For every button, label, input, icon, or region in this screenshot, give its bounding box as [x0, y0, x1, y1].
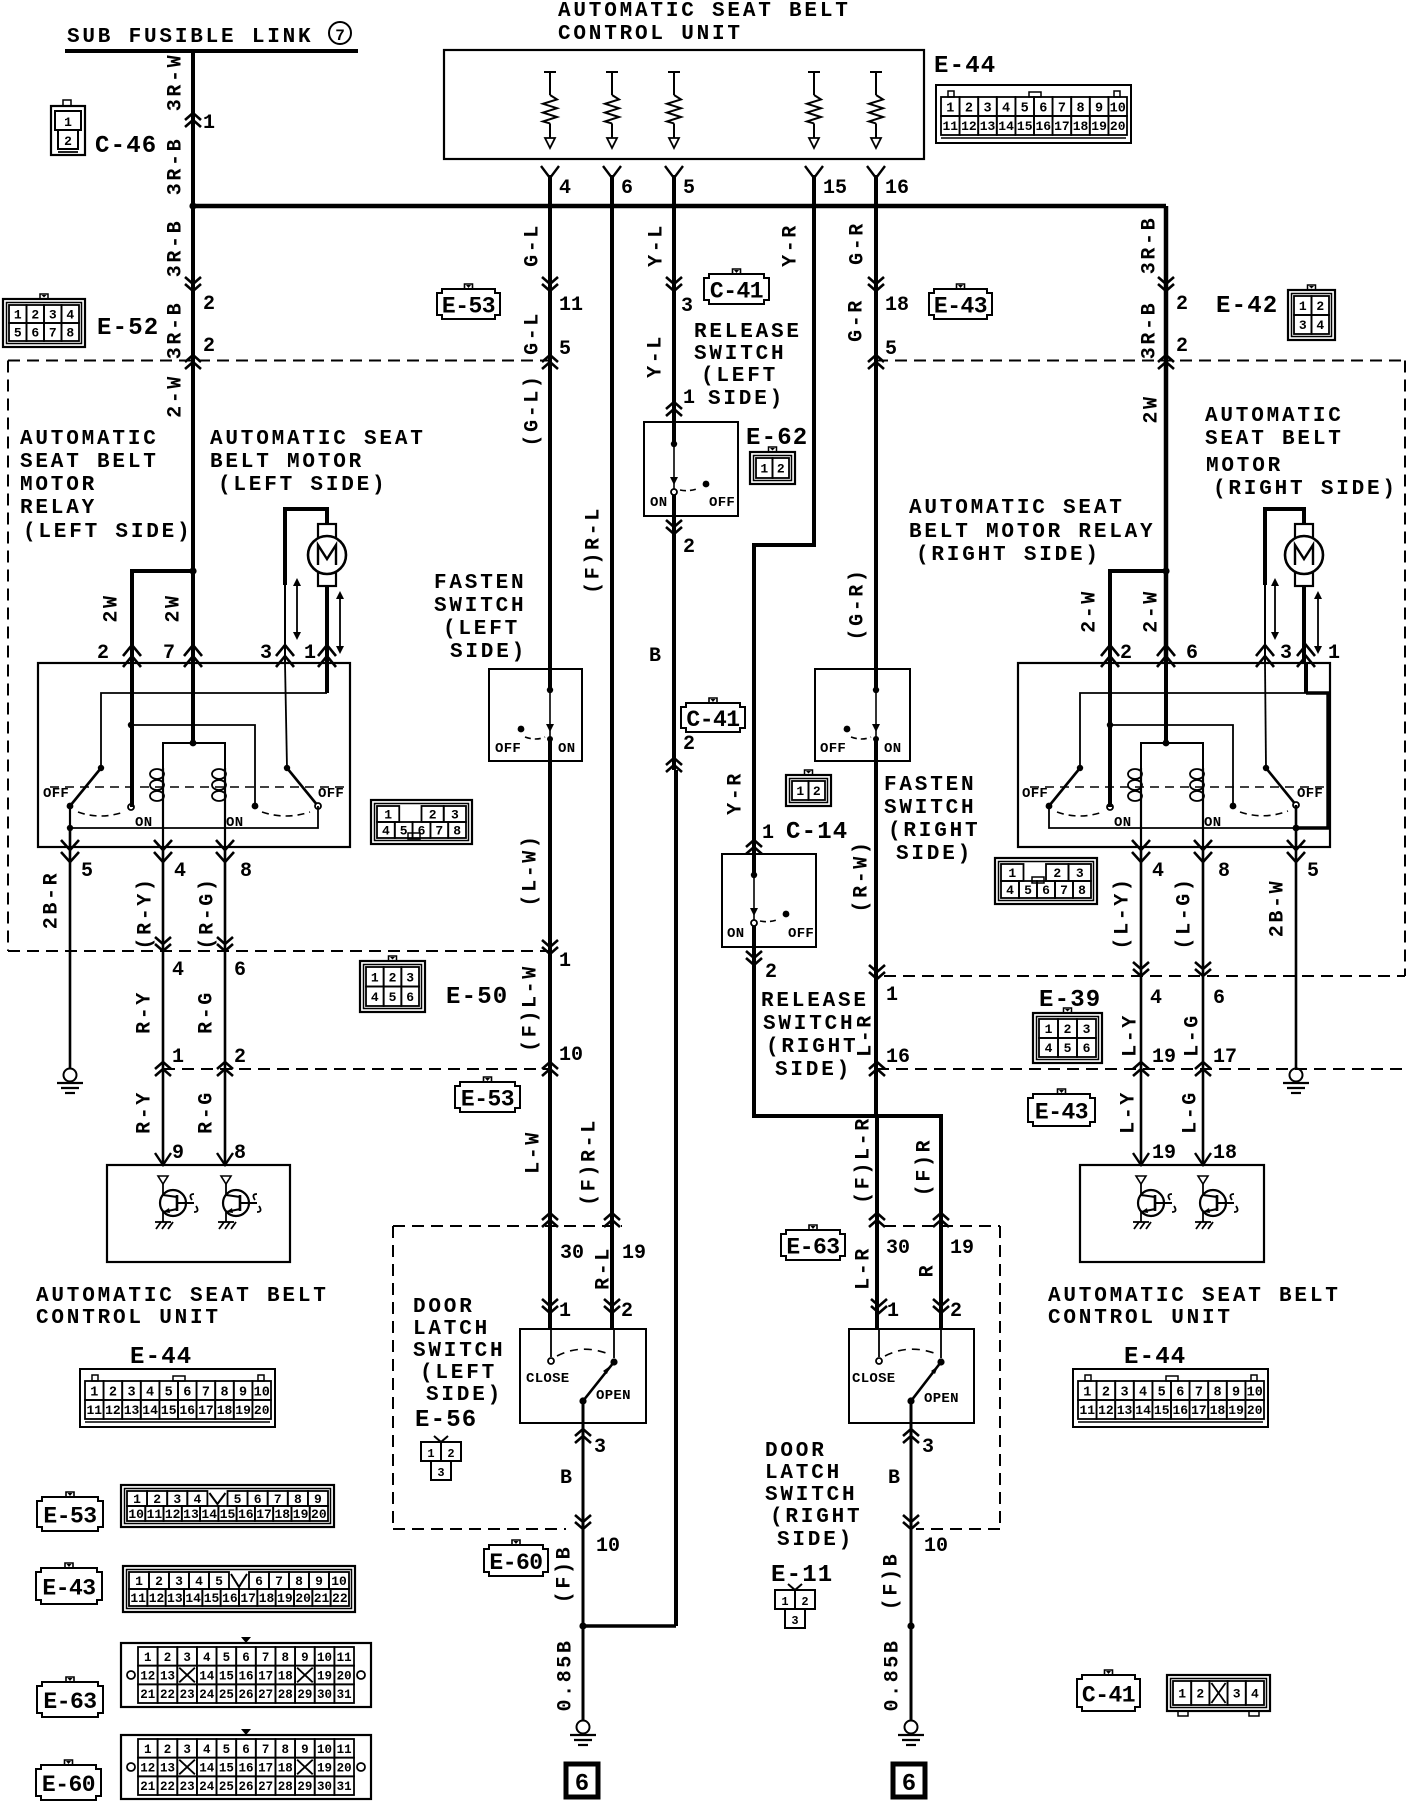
connector E-43 label right [1058, 1089, 1066, 1094]
connector E-63 grid [121, 1643, 371, 1707]
svg-text:1: 1 [559, 950, 571, 973]
relay left coil2 [193, 743, 225, 768]
svg-text:1: 1 [1299, 299, 1307, 314]
svg-text:2: 2 [1176, 293, 1188, 316]
svg-text:18: 18 [1210, 1403, 1226, 1418]
svg-text:3: 3 [183, 1651, 191, 1665]
svg-text:5: 5 [1021, 101, 1029, 116]
transistor left2 [221, 1176, 231, 1184]
svg-text:OFF: OFF [709, 495, 735, 511]
svg-text:(LEFT SIDE): (LEFT SIDE) [218, 474, 387, 497]
connector C-41 label top [733, 269, 741, 274]
svg-text:SUB FUSIBLE LINK: SUB FUSIBLE LINK [67, 26, 313, 49]
svg-text:SIDE): SIDE) [777, 1529, 854, 1552]
svg-text:DOOR: DOOR [765, 1440, 827, 1463]
svg-text:5: 5 [1064, 1041, 1072, 1056]
svg-text:(RIGHT SIDE): (RIGHT SIDE) [916, 544, 1101, 567]
svg-text:C-14: C-14 [786, 819, 848, 846]
svg-text:16: 16 [885, 177, 909, 200]
svg-text:24: 24 [199, 1688, 215, 1702]
svg-text:4: 4 [203, 1743, 211, 1757]
motor M right [1295, 524, 1313, 586]
ground right relay [1290, 1069, 1303, 1082]
svg-text:G-L: G-L [522, 223, 545, 267]
svg-text:6: 6 [406, 990, 414, 1005]
svg-text:2: 2 [97, 642, 109, 665]
svg-text:(LEFT SIDE): (LEFT SIDE) [23, 521, 192, 544]
svg-text:2: 2 [777, 462, 785, 477]
motor M left [318, 524, 336, 586]
svg-text:4: 4 [66, 308, 74, 323]
svg-text:AUTOMATIC SEAT BELT: AUTOMATIC SEAT BELT [558, 0, 851, 23]
svg-text:8: 8 [234, 1142, 246, 1165]
svg-text:2: 2 [1176, 335, 1188, 358]
svg-text:3R-B: 3R-B [165, 219, 188, 277]
release switch left box [644, 422, 738, 516]
svg-text:BELT MOTOR: BELT MOTOR [210, 451, 364, 474]
transistor right2 [1198, 1176, 1208, 1184]
svg-text:1: 1 [203, 112, 215, 135]
svg-text:6: 6 [242, 1651, 250, 1665]
svg-text:1: 1 [144, 1651, 152, 1665]
svg-text:14: 14 [185, 1591, 201, 1606]
svg-text:10: 10 [254, 1385, 270, 1400]
svg-text:RELAY: RELAY [20, 497, 97, 520]
svg-text:ON: ON [650, 495, 667, 511]
svg-text:MOTOR: MOTOR [20, 474, 97, 497]
pin 1 C-46 [185, 113, 201, 120]
svg-text:23: 23 [180, 1780, 195, 1794]
svg-text:21: 21 [140, 1780, 155, 1794]
svg-text:5: 5 [400, 824, 408, 839]
pin 1 release switch left [666, 402, 682, 409]
svg-text:16: 16 [1172, 1403, 1188, 1418]
svg-text:SWITCH: SWITCH [763, 1013, 855, 1036]
svg-text:CLOSE: CLOSE [526, 1371, 570, 1387]
connector E-53 grid [121, 1485, 334, 1527]
svg-text:12: 12 [165, 1507, 181, 1522]
svg-text:4: 4 [1152, 860, 1164, 883]
svg-text:4: 4 [1139, 1385, 1147, 1400]
relay right switch1 [1077, 765, 1083, 771]
svg-text:6: 6 [1176, 1385, 1184, 1400]
connector E-63 label bottom [66, 1677, 74, 1682]
svg-text:19: 19 [277, 1591, 293, 1606]
svg-text:25: 25 [219, 1780, 234, 1794]
svg-text:12: 12 [1098, 1403, 1114, 1418]
svg-text:AUTOMATIC: AUTOMATIC [20, 428, 159, 451]
svg-text:14: 14 [199, 1762, 215, 1776]
svg-text:R-G: R-G [196, 1090, 219, 1134]
svg-text:6: 6 [1186, 642, 1198, 665]
automatic seat belt control unit box [444, 50, 924, 159]
svg-text:E-63: E-63 [786, 1234, 839, 1260]
svg-text:1: 1 [760, 462, 768, 477]
svg-text:11: 11 [86, 1403, 102, 1418]
svg-text:9: 9 [1095, 101, 1103, 116]
pin 5 harness [868, 355, 884, 362]
relay left coil1 [163, 743, 193, 768]
svg-text:2: 2 [801, 1595, 808, 1609]
svg-text:3: 3 [791, 1614, 798, 1628]
svg-text:LATCH: LATCH [765, 1462, 842, 1485]
svg-text:5: 5 [215, 1574, 223, 1589]
svg-text:14: 14 [142, 1403, 158, 1418]
svg-text:5: 5 [683, 177, 695, 200]
svg-text:4: 4 [559, 177, 571, 200]
svg-text:18: 18 [885, 294, 909, 317]
svg-text:17: 17 [240, 1591, 256, 1606]
svg-text:2-W: 2-W [165, 374, 188, 418]
svg-text:R-G: R-G [196, 990, 219, 1034]
svg-text:8: 8 [1078, 883, 1086, 898]
svg-text:DOOR: DOOR [413, 1296, 475, 1319]
svg-text:C-41: C-41 [710, 278, 763, 304]
wire L-Y [1140, 847, 1143, 1165]
svg-text:Y-L: Y-L [646, 223, 669, 267]
connector C-46 icon [51, 106, 85, 155]
svg-text:B: B [649, 645, 661, 668]
svg-text:13: 13 [167, 1591, 183, 1606]
svg-text:5: 5 [14, 326, 22, 341]
svg-text:3: 3 [1299, 318, 1307, 333]
svg-text:7: 7 [435, 824, 443, 839]
connector E-53 label bottom [66, 1492, 74, 1497]
relay left coil feed pin7 [191, 663, 195, 743]
svg-text:12: 12 [961, 119, 977, 134]
svg-text:L-Y: L-Y [1120, 1013, 1143, 1057]
splice door latch left to release B wire [579, 1622, 586, 1629]
svg-text:R-Y: R-Y [134, 1090, 157, 1134]
svg-text:ON: ON [558, 741, 575, 757]
svg-text:19: 19 [1091, 119, 1107, 134]
door latch right arm [911, 1362, 941, 1401]
svg-text:12: 12 [105, 1403, 121, 1418]
svg-text:6: 6 [1213, 987, 1225, 1010]
svg-text:31: 31 [337, 1780, 352, 1794]
svg-text:13: 13 [160, 1670, 175, 1684]
svg-text:AUTOMATIC SEAT: AUTOMATIC SEAT [210, 428, 426, 451]
svg-text:6: 6 [575, 1771, 589, 1798]
svg-text:7: 7 [202, 1385, 210, 1400]
svg-text:19: 19 [317, 1762, 332, 1776]
svg-text:4: 4 [1316, 318, 1324, 333]
motor direction arrows right [1274, 585, 1276, 633]
relay left bottom pins [61, 840, 79, 850]
svg-text:(LEFT: (LEFT [443, 618, 520, 641]
svg-text:7: 7 [49, 326, 57, 341]
svg-text:3: 3 [183, 1743, 191, 1757]
svg-text:15: 15 [219, 1670, 234, 1684]
relay left pin1 to pivots line [325, 663, 329, 693]
svg-text:18: 18 [1213, 1142, 1237, 1165]
svg-text:4: 4 [382, 824, 390, 839]
svg-text:15: 15 [823, 177, 847, 200]
svg-text:1: 1 [1328, 642, 1340, 665]
svg-text:AUTOMATIC SEAT BELT: AUTOMATIC SEAT BELT [36, 1285, 329, 1308]
svg-text:2: 2 [1102, 1385, 1110, 1400]
svg-text:11: 11 [559, 294, 583, 317]
svg-text:3: 3 [1280, 642, 1292, 665]
svg-text:3R-W: 3R-W [165, 53, 188, 111]
svg-text:5: 5 [885, 338, 897, 361]
door latch left dashed box [393, 1225, 622, 1227]
svg-text:16: 16 [238, 1762, 253, 1776]
svg-text:19: 19 [950, 1237, 974, 1260]
svg-text:G-R: G-R [847, 221, 870, 265]
svg-text:E-53: E-53 [442, 293, 495, 319]
svg-text:2: 2 [389, 970, 397, 985]
svg-text:AUTOMATIC SEAT: AUTOMATIC SEAT [909, 497, 1125, 520]
svg-text:5: 5 [1158, 1385, 1166, 1400]
wire R-L pin6 to door latch left pin2 [610, 175, 614, 1329]
svg-text:13: 13 [183, 1507, 199, 1522]
svg-text:2: 2 [1120, 642, 1132, 665]
svg-text:2: 2 [683, 733, 695, 756]
svg-text:5: 5 [165, 1385, 173, 1400]
svg-text:7: 7 [1195, 1385, 1203, 1400]
harness dashed boundary top [8, 360, 551, 362]
svg-text:20: 20 [254, 1403, 270, 1418]
svg-text:18: 18 [278, 1670, 293, 1684]
svg-text:21: 21 [140, 1688, 155, 1702]
connector E-53 label mid [484, 1077, 492, 1082]
svg-text:18: 18 [278, 1762, 293, 1776]
svg-text:1: 1 [384, 808, 392, 823]
svg-text:1: 1 [1178, 1687, 1186, 1702]
svg-text:22: 22 [160, 1688, 175, 1702]
svg-text:OFF: OFF [318, 786, 344, 802]
svg-text:2: 2 [965, 101, 973, 116]
svg-text:(F)R-L: (F)R-L [579, 1118, 602, 1206]
svg-text:17: 17 [1191, 1403, 1207, 1418]
svg-text:LATCH: LATCH [413, 1318, 490, 1341]
svg-text:(R-G): (R-G) [197, 876, 220, 949]
svg-text:5: 5 [1307, 860, 1319, 883]
relay left actuation dashed [50, 786, 344, 788]
svg-text:(RIGHT SIDE): (RIGHT SIDE) [1213, 478, 1398, 501]
svg-text:9: 9 [172, 1142, 184, 1165]
door latch right dashed box [884, 1225, 1000, 1227]
connector E-53 label top [465, 284, 473, 289]
svg-text:1: 1 [90, 1385, 98, 1400]
transistor left1 [158, 1176, 168, 1184]
svg-text:9: 9 [239, 1385, 247, 1400]
svg-text:OFF: OFF [1022, 786, 1048, 802]
svg-text:8: 8 [282, 1651, 290, 1665]
ground left relay [64, 1069, 77, 1082]
svg-text:8: 8 [220, 1385, 228, 1400]
relay right pin2 wire [1108, 663, 1112, 807]
svg-text:12: 12 [140, 1670, 155, 1684]
connector E-42 icon [1288, 290, 1335, 340]
svg-text:(LEFT: (LEFT [420, 1362, 497, 1385]
svg-text:1: 1 [1083, 1385, 1091, 1400]
svg-text:30: 30 [886, 1237, 910, 1260]
svg-text:4: 4 [1006, 883, 1014, 898]
svg-text:5: 5 [223, 1651, 231, 1665]
svg-text:E-44: E-44 [1124, 1344, 1186, 1371]
svg-text:E-53: E-53 [461, 1086, 514, 1112]
svg-text:CONTROL UNIT: CONTROL UNIT [36, 1307, 221, 1330]
automatic seat belt motor relay left box [38, 663, 350, 847]
svg-text:Y-R: Y-R [725, 771, 748, 815]
svg-text:2W: 2W [1141, 394, 1164, 423]
connector C-14 icon [786, 775, 831, 806]
svg-text:ON: ON [727, 926, 744, 942]
svg-text:MOTOR: MOTOR [1206, 455, 1283, 478]
svg-text:10: 10 [1247, 1385, 1263, 1400]
svg-text:13: 13 [160, 1762, 175, 1776]
svg-text:4: 4 [1002, 101, 1010, 116]
wire 2-W branch to relay right pin2 [1162, 567, 1169, 574]
automatic seat belt motor relay right box [1018, 663, 1330, 847]
connector E-60 label bottom [65, 1760, 73, 1765]
connector E-60 label mid [512, 1540, 520, 1545]
control unit pins forks [541, 166, 559, 178]
svg-text:27: 27 [258, 1780, 273, 1794]
svg-text:2: 2 [164, 1743, 172, 1757]
svg-text:1: 1 [1045, 1022, 1053, 1037]
svg-text:FASTEN: FASTEN [434, 572, 526, 595]
svg-text:1: 1 [14, 308, 22, 323]
svg-text:8: 8 [294, 1492, 302, 1507]
svg-text:4: 4 [193, 1492, 201, 1507]
svg-text:(F)L-R: (F)L-R [853, 1116, 876, 1204]
connector C-41 grid [1167, 1675, 1270, 1711]
svg-text:E-43: E-43 [42, 1575, 95, 1601]
svg-text:OFF: OFF [788, 926, 814, 942]
svg-text:4: 4 [1251, 1687, 1259, 1702]
svg-text:8: 8 [1213, 1385, 1221, 1400]
svg-text:20: 20 [1247, 1403, 1263, 1418]
svg-text:11: 11 [130, 1591, 146, 1606]
pin 2 E-52 [185, 284, 201, 291]
harness dashed boundary right [1404, 361, 1406, 977]
svg-text:9: 9 [301, 1743, 309, 1757]
svg-text:7: 7 [275, 1574, 283, 1589]
svg-text:15: 15 [219, 1762, 234, 1776]
svg-text:OFF: OFF [43, 786, 69, 802]
svg-text:6: 6 [418, 824, 426, 839]
svg-text:1: 1 [683, 387, 695, 410]
connector E-43 label top [957, 284, 965, 289]
svg-text:1: 1 [304, 642, 316, 665]
svg-text:C-46: C-46 [95, 133, 157, 160]
relay left switch1 [98, 765, 104, 771]
svg-text:18: 18 [275, 1507, 291, 1522]
svg-text:E-39: E-39 [1039, 987, 1101, 1014]
svg-text:1: 1 [1008, 866, 1016, 881]
ground door latch right [905, 1721, 918, 1734]
svg-text:4: 4 [146, 1385, 154, 1400]
svg-text:3R-B: 3R-B [1139, 216, 1162, 274]
svg-text:17: 17 [1213, 1046, 1237, 1069]
svg-text:L-G: L-G [1180, 1090, 1203, 1134]
ground ref 6 right [893, 1764, 925, 1797]
svg-text:3: 3 [127, 1385, 135, 1400]
svg-text:14: 14 [1135, 1403, 1151, 1418]
svg-text:5: 5 [1024, 883, 1032, 898]
svg-text:27: 27 [258, 1688, 273, 1702]
svg-text:(L-G): (L-G) [1174, 876, 1197, 949]
svg-text:(RIGHT: (RIGHT [770, 1506, 862, 1529]
svg-text:SWITCH: SWITCH [694, 343, 786, 366]
svg-text:23: 23 [180, 1688, 195, 1702]
svg-text:3: 3 [437, 1466, 444, 1480]
svg-text:1: 1 [781, 1595, 788, 1609]
svg-text:Y-R: Y-R [780, 223, 803, 267]
wire 3R-W main feed vertical [191, 51, 195, 663]
automatic seat belt motor left wires [285, 509, 327, 585]
svg-text:G-L: G-L [522, 311, 545, 355]
svg-text:17: 17 [258, 1670, 273, 1684]
svg-text:14: 14 [199, 1670, 215, 1684]
svg-text:G-R: G-R [846, 298, 869, 342]
svg-text:3: 3 [49, 308, 57, 323]
svg-text:1: 1 [946, 101, 954, 116]
relay left switch2 [284, 765, 290, 771]
svg-text:5: 5 [559, 338, 571, 361]
svg-text:4: 4 [172, 959, 184, 982]
door latch switch left box [520, 1329, 646, 1423]
svg-text:8: 8 [1076, 101, 1084, 116]
svg-text:L-W: L-W [523, 1130, 546, 1174]
svg-text:2B-R: 2B-R [41, 871, 64, 929]
svg-text:10: 10 [128, 1507, 144, 1522]
svg-text:20: 20 [295, 1591, 311, 1606]
svg-text:2: 2 [64, 134, 72, 149]
svg-text:4: 4 [371, 990, 379, 1005]
harness dashed line right mid [884, 975, 1405, 977]
svg-text:6: 6 [255, 1574, 263, 1589]
svg-text:19: 19 [293, 1507, 309, 1522]
svg-text:(RIGHT: (RIGHT [766, 1036, 858, 1059]
svg-text:9: 9 [1232, 1385, 1240, 1400]
svg-text:(RIGHT: (RIGHT [888, 820, 980, 843]
svg-text:16: 16 [886, 1046, 910, 1069]
release switch right box [722, 854, 816, 947]
svg-text:25: 25 [219, 1688, 234, 1702]
automatic seat belt control unit right box [1080, 1165, 1264, 1262]
connector E-60 grid [121, 1735, 371, 1799]
wire B release left to splice [672, 495, 676, 770]
svg-text:6: 6 [1083, 1041, 1091, 1056]
svg-text:7: 7 [274, 1492, 282, 1507]
svg-text:(L-Y): (L-Y) [1112, 876, 1135, 949]
svg-text:16: 16 [222, 1591, 238, 1606]
svg-text:3: 3 [983, 101, 991, 116]
svg-text:3: 3 [260, 642, 272, 665]
svg-text:17: 17 [198, 1403, 214, 1418]
svg-text:7: 7 [262, 1743, 270, 1757]
svg-text:3: 3 [406, 970, 414, 985]
svg-text:CLOSE: CLOSE [852, 1371, 896, 1387]
svg-text:C-41: C-41 [1082, 1682, 1135, 1708]
svg-text:R-L: R-L [593, 1246, 616, 1290]
svg-text:4: 4 [195, 1574, 203, 1589]
wire 3R-B right vertical [1164, 206, 1169, 663]
bus from fusible link to relays [189, 202, 196, 209]
wire release right output to door latch right pin2 [754, 947, 941, 1329]
wire Y-L pin5 to release switch left [672, 175, 676, 444]
pin 2 E-42 [1158, 284, 1174, 291]
svg-text:1: 1 [133, 1492, 141, 1507]
svg-text:7: 7 [335, 27, 345, 45]
svg-text:11: 11 [942, 119, 958, 134]
svg-text:7: 7 [1058, 101, 1066, 116]
svg-text:3: 3 [1233, 1687, 1241, 1702]
